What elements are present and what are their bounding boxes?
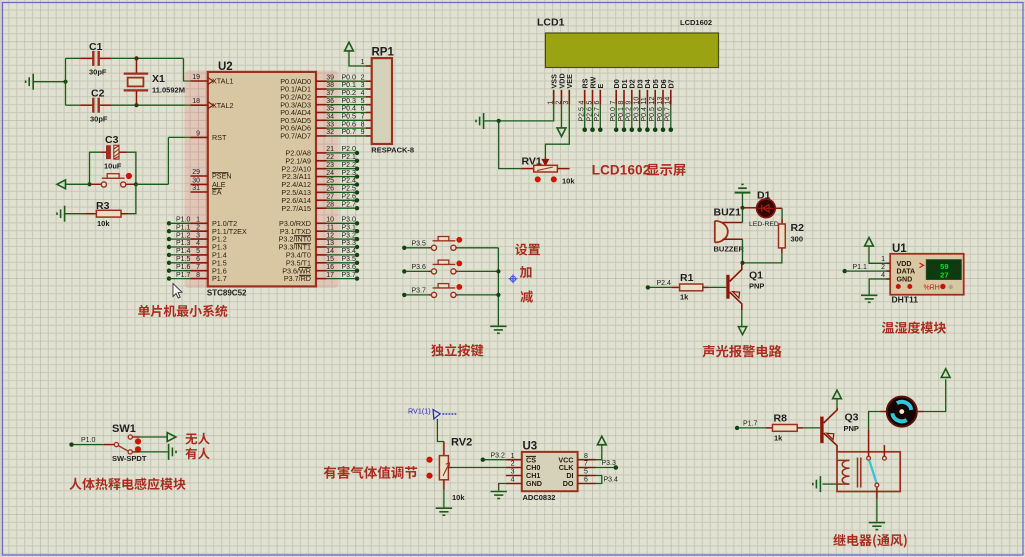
pin 17 P3.7 with net label <box>316 278 327 280</box>
svg-text:P0.5: P0.5 <box>649 107 656 122</box>
svg-text:37: 37 <box>326 90 334 97</box>
pin 35 P0.4 wire to RP1 pin 6 <box>316 111 327 113</box>
wire C2 to XTAL2 <box>112 104 191 106</box>
svg-text:P3.3: P3.3 <box>342 240 357 247</box>
net P3.2 terminal <box>481 458 485 462</box>
svg-text:P0.3: P0.3 <box>342 98 357 105</box>
svg-text:D7: D7 <box>667 79 676 88</box>
svg-text:BUZZER: BUZZER <box>714 245 745 254</box>
wire RST riser <box>167 137 169 184</box>
U3 pin 6 DO <box>578 483 596 485</box>
svg-text:6: 6 <box>594 101 601 105</box>
buzzer BUZ1 <box>715 221 728 243</box>
svg-text:8: 8 <box>618 101 625 105</box>
svg-text:P1.7: P1.7 <box>743 421 758 428</box>
svg-text:P3.6: P3.6 <box>412 264 427 271</box>
svg-text:DO: DO <box>563 479 574 488</box>
wire RV2 to ground <box>443 490 445 508</box>
svg-text:2: 2 <box>511 461 515 468</box>
wire DI-DO bracket P3.4 <box>596 476 602 484</box>
svg-text:8: 8 <box>361 121 365 128</box>
svg-text:31: 31 <box>192 185 200 192</box>
svg-text:6: 6 <box>196 256 200 263</box>
power terminal (left arrow) <box>57 180 66 189</box>
wire C1 to xtal node <box>112 57 184 59</box>
svg-text:P2.6: P2.6 <box>586 107 593 122</box>
wire P3.2 to CS <box>485 459 506 461</box>
svg-text:Q1: Q1 <box>749 270 763 282</box>
wire SW1 NO throw to ground <box>132 451 139 453</box>
node xtal2 bottom <box>134 103 138 107</box>
pin 2 P1.1 with net label <box>167 229 171 233</box>
node emitter <box>740 261 744 265</box>
wire VSS to ground <box>484 105 553 121</box>
svg-text:RESPACK-8: RESPACK-8 <box>371 145 414 154</box>
capacitor C2 <box>66 104 81 106</box>
svg-text:1: 1 <box>196 217 200 224</box>
U3 pin 8 VCC <box>578 459 596 461</box>
reset button <box>92 183 102 185</box>
DHT11 pin 4 GND <box>887 278 891 280</box>
svg-text:1k: 1k <box>774 434 783 443</box>
svg-text:RST: RST <box>212 133 227 142</box>
wire C3 right loop <box>127 152 136 184</box>
wire RV1(1) to RV2 <box>437 419 444 442</box>
svg-text:DATA: DATA <box>897 268 916 276</box>
svg-text:33: 33 <box>326 121 334 128</box>
relay NC contact stub <box>883 456 887 460</box>
pin 14 P3.4 with net label <box>316 254 327 256</box>
svg-text:10k: 10k <box>452 493 465 502</box>
svg-text:BUZ1: BUZ1 <box>714 207 742 219</box>
capacitor C1 <box>66 57 81 59</box>
svg-text:P3.4: P3.4 <box>604 477 619 484</box>
svg-text:R3: R3 <box>96 200 110 212</box>
U3 pin 3 CH1 <box>506 475 522 477</box>
svg-text:P2.2: P2.2 <box>342 162 357 169</box>
svg-text:14: 14 <box>665 97 672 105</box>
svg-text:4: 4 <box>196 240 200 247</box>
svg-text:13: 13 <box>326 240 334 247</box>
svg-text:27: 27 <box>940 270 948 279</box>
ground left (relay coil) <box>813 476 821 492</box>
svg-text:P2.4: P2.4 <box>342 178 357 185</box>
svg-text:30: 30 <box>192 177 200 184</box>
wire P1.7 to R8 <box>739 427 766 429</box>
RV2 wiper stub <box>448 467 452 469</box>
label 单片机最小系统 <box>138 305 227 317</box>
svg-text:30pF: 30pF <box>89 68 107 77</box>
svg-text:7: 7 <box>361 114 365 121</box>
label 减 <box>520 290 532 302</box>
svg-text:U1: U1 <box>892 243 907 255</box>
label 继电器(通风) <box>833 534 906 548</box>
wire P1.1 to DATA <box>847 270 887 272</box>
wire button rail <box>497 248 499 326</box>
svg-text:5: 5 <box>361 98 365 105</box>
svg-text:25: 25 <box>326 178 334 185</box>
svg-text:P2.7/A15: P2.7/A15 <box>281 204 311 213</box>
pin 28 P2.7 with net label <box>316 207 327 209</box>
power terminal (Q3) <box>833 390 842 399</box>
svg-text:7: 7 <box>196 264 200 271</box>
net P1.0 terminal <box>69 442 73 446</box>
label 独立按键 <box>431 344 483 357</box>
ground (buttons) <box>490 326 506 333</box>
node rail junction <box>63 80 67 84</box>
pin 21 P2.0 with net label <box>316 152 327 154</box>
svg-text:P0.1: P0.1 <box>618 107 625 122</box>
svg-text:P1.0: P1.0 <box>81 437 96 444</box>
svg-text:3: 3 <box>196 232 200 239</box>
wire GND to ground <box>499 484 506 491</box>
svg-text:10uF: 10uF <box>104 162 122 171</box>
pin 11 P3.1 with net label <box>316 230 327 232</box>
pin highlight band left <box>185 71 212 289</box>
pin 16 P3.6 with net label <box>316 270 327 272</box>
pin 29 PSEN <box>191 175 208 177</box>
label 设置 <box>515 244 540 256</box>
svg-text:SW-SPDT: SW-SPDT <box>112 454 147 463</box>
svg-text:XTAL2: XTAL2 <box>212 101 233 110</box>
svg-text:1: 1 <box>548 101 555 105</box>
relay common contact <box>867 456 871 460</box>
svg-text:P0.4: P0.4 <box>641 107 648 122</box>
pin 38 P0.1 wire to RP1 pin 3 <box>316 88 327 90</box>
power terminal (alarm, inverted bars) <box>735 184 751 192</box>
wire ground to rail <box>33 81 65 83</box>
label 加 <box>520 266 532 278</box>
pin 13 P3.3 with net label <box>316 246 327 248</box>
svg-text:15: 15 <box>326 256 334 263</box>
wire pole to ground <box>876 499 878 522</box>
wire buzzer to emitter node <box>742 239 744 263</box>
wire arrow to node <box>66 183 90 185</box>
pin 25 P2.4 with net label <box>316 184 327 186</box>
U3 pin 1 CS <box>506 459 522 461</box>
button P3.7 <box>402 293 406 297</box>
pin 9 RST <box>191 136 208 138</box>
motor/fan <box>887 397 917 427</box>
svg-text:RV1(1): RV1(1) <box>408 407 431 416</box>
wire R1 to Q1 base <box>709 286 727 288</box>
net P1.1 terminal <box>843 269 847 273</box>
svg-text:LCD1602: LCD1602 <box>592 163 651 178</box>
U3 pin 4 GND <box>506 483 522 485</box>
svg-text:ADC0832: ADC0832 <box>523 493 556 502</box>
svg-text:RP1: RP1 <box>372 47 395 59</box>
resistor R2 300 <box>781 219 783 224</box>
svg-text:10k: 10k <box>562 177 575 186</box>
svg-text:3: 3 <box>361 82 365 89</box>
svg-text:38: 38 <box>326 82 334 89</box>
svg-text:32: 32 <box>326 129 334 136</box>
pin 12 P3.2 with net label <box>316 238 327 240</box>
power terminal right (无人) <box>167 433 176 442</box>
svg-text:24: 24 <box>326 170 334 177</box>
wire GND pin to ground <box>869 279 886 295</box>
wire motor to power <box>916 411 923 413</box>
MCU U2 STC89C52 body <box>208 72 316 287</box>
wire XTAL1 <box>184 58 191 81</box>
net P3.3 terminal <box>614 465 619 470</box>
resistor R1 1k <box>672 286 680 288</box>
svg-text:5: 5 <box>586 101 593 105</box>
svg-text:PNP: PNP <box>749 282 764 291</box>
svg-text:35: 35 <box>326 106 334 113</box>
svg-text:P3.2: P3.2 <box>342 232 357 239</box>
svg-text:P1.2: P1.2 <box>176 232 191 239</box>
relay lever (cyan) <box>869 460 876 483</box>
pin 19 XTAL1 <box>191 80 208 82</box>
svg-text:STC89C52: STC89C52 <box>207 288 247 297</box>
wire power to RP1 pin 1 <box>349 51 366 66</box>
svg-text:P3.0: P3.0 <box>342 217 357 224</box>
svg-text:LCD1602: LCD1602 <box>680 18 712 27</box>
label 人体热释电感应模块 <box>69 478 185 490</box>
svg-text:26: 26 <box>326 186 334 193</box>
svg-text:11.0592M: 11.0592M <box>152 86 185 95</box>
svg-text:27: 27 <box>326 194 334 201</box>
svg-text:C1: C1 <box>89 41 103 53</box>
svg-text:4: 4 <box>361 90 365 97</box>
svg-text:LCD1: LCD1 <box>537 17 565 29</box>
label 声光报警电路 <box>703 345 782 358</box>
svg-text:2: 2 <box>881 264 885 271</box>
svg-text:11: 11 <box>641 97 648 104</box>
wire coil to ground <box>822 483 837 485</box>
label 有人 <box>185 448 209 460</box>
svg-text:P2.6: P2.6 <box>342 194 357 201</box>
pin 1 P1.0 with net label <box>167 221 171 225</box>
svg-text:VEE: VEE <box>565 74 574 89</box>
wire VCC to power <box>596 445 602 459</box>
svg-text:SW1: SW1 <box>112 423 136 435</box>
svg-text:Q3: Q3 <box>845 412 859 424</box>
svg-text:P0.0: P0.0 <box>610 107 617 122</box>
svg-text:E: E <box>596 84 605 89</box>
svg-text:P2.5: P2.5 <box>579 107 586 122</box>
ground (crystal rail) <box>26 74 34 90</box>
svg-text:7: 7 <box>610 101 617 105</box>
svg-text:10: 10 <box>633 97 640 105</box>
svg-text:16: 16 <box>326 264 334 271</box>
node buzzer/led top <box>740 206 744 210</box>
ground (RV2) <box>436 508 452 515</box>
pin 5 P1.4 with net label <box>167 253 171 257</box>
LCD1602 screen body <box>545 33 718 68</box>
svg-text:23: 23 <box>326 162 334 169</box>
svg-text:X1: X1 <box>152 73 165 85</box>
svg-text:P0.2: P0.2 <box>626 107 633 122</box>
svg-text:P2.7: P2.7 <box>594 107 601 122</box>
svg-text:P3.5: P3.5 <box>412 241 427 248</box>
svg-text:P1.7: P1.7 <box>176 272 191 279</box>
node xtal1 top <box>134 56 138 60</box>
svg-text:28: 28 <box>326 201 334 208</box>
svg-text:P2.0: P2.0 <box>342 146 357 153</box>
button P3.6 <box>402 269 406 273</box>
svg-text:RV1: RV1 <box>522 156 542 168</box>
SW1 pin markers <box>135 438 141 444</box>
svg-text:1: 1 <box>511 453 515 460</box>
svg-text:P0.7/AD7: P0.7/AD7 <box>280 132 311 141</box>
svg-text:P2.1: P2.1 <box>342 154 357 161</box>
svg-text:P0.6: P0.6 <box>342 121 357 128</box>
svg-text:9: 9 <box>626 101 633 105</box>
svg-text:D1: D1 <box>757 190 771 202</box>
ground (relay pole) <box>869 523 885 530</box>
resistor R8 1k <box>766 427 773 429</box>
net P1.7 terminal <box>735 426 739 430</box>
ADC0832 U3 body <box>522 452 578 491</box>
svg-text:P3.7: P3.7 <box>342 272 357 279</box>
wire R3 to reset node <box>129 184 136 213</box>
wire P3.5 to rail <box>458 247 498 249</box>
svg-text:9: 9 <box>196 130 200 137</box>
svg-text:3: 3 <box>563 101 570 105</box>
svg-text:2: 2 <box>555 101 562 105</box>
pin 32 P0.7 wire to RP1 pin 9 <box>316 135 327 137</box>
svg-text:34: 34 <box>326 114 334 121</box>
pin 22 P2.1 with net label <box>316 160 327 162</box>
wire P3.6 to rail <box>458 270 498 272</box>
svg-text:P1.6: P1.6 <box>176 264 191 271</box>
svg-text:4: 4 <box>881 272 885 279</box>
svg-text:P0.2: P0.2 <box>342 90 357 97</box>
power terminal above RP1 <box>345 42 354 51</box>
ground (DHT11) <box>861 295 877 302</box>
svg-text:RV2: RV2 <box>451 437 472 449</box>
svg-text:5: 5 <box>584 469 588 476</box>
svg-text:7: 7 <box>584 461 588 468</box>
svg-text:P3.3: P3.3 <box>602 460 617 467</box>
svg-text:36: 36 <box>326 98 334 105</box>
ground (LCD VSS) <box>476 113 484 129</box>
svg-text:P0.3: P0.3 <box>633 107 640 122</box>
svg-text:%RH: %RH <box>924 284 940 291</box>
LED D1 LED-RED <box>743 207 758 209</box>
svg-text:P0.0: P0.0 <box>342 74 357 81</box>
svg-text:6: 6 <box>361 106 365 113</box>
wire Q1 collector to ground arrow <box>741 310 743 327</box>
svg-text:22: 22 <box>326 154 334 161</box>
wire R2 to emitter node <box>743 253 782 263</box>
switch SW1 SW-SPDT <box>104 444 114 446</box>
pin 4 P1.3 with net label <box>167 245 171 249</box>
svg-text:P3.2: P3.2 <box>491 452 506 459</box>
node VSS/RV1 <box>497 119 501 123</box>
pin 37 P0.2 wire to RP1 pin 4 <box>316 96 327 98</box>
svg-text:XTAL1: XTAL1 <box>212 77 233 86</box>
svg-text:18: 18 <box>192 98 200 105</box>
svg-text:2: 2 <box>361 74 365 81</box>
svg-text:U2: U2 <box>218 61 233 73</box>
net P2.4 terminal <box>646 285 650 289</box>
pin 39 P0.0 wire to RP1 pin 2 <box>316 80 327 82</box>
DHT11 pin 1 VDD <box>887 262 891 264</box>
wire LED to R2 <box>781 208 783 219</box>
svg-text:P1.4: P1.4 <box>176 248 191 255</box>
svg-text:5: 5 <box>196 248 200 255</box>
svg-text:P3.6: P3.6 <box>342 264 357 271</box>
button P3.5 <box>402 246 406 250</box>
RV1 wiper arrow <box>543 157 549 165</box>
svg-text:6: 6 <box>584 477 588 484</box>
capacitor C3 10uF <box>106 145 111 159</box>
svg-text:1: 1 <box>361 59 365 66</box>
pin 3 P1.2 with net label <box>167 237 171 241</box>
svg-text:P1.1: P1.1 <box>853 264 868 271</box>
svg-text:8: 8 <box>584 453 588 460</box>
wire left rail <box>65 58 67 105</box>
wire relay common to motor <box>869 412 881 431</box>
svg-text:P1.5: P1.5 <box>176 256 191 263</box>
DHT11 pin 2 DATA <box>887 270 891 272</box>
svg-text:29: 29 <box>192 169 200 176</box>
node reset right <box>134 182 138 186</box>
label 无人 <box>185 433 209 445</box>
wire CLK to P3.3 <box>596 467 614 469</box>
pin 23 P2.2 with net label <box>316 168 327 170</box>
pin 34 P0.5 wire to RP1 pin 7 <box>316 119 327 121</box>
wire SW1 NC throw to power <box>132 436 139 438</box>
svg-text:GND: GND <box>897 276 913 284</box>
svg-text:11: 11 <box>327 224 334 231</box>
svg-text:1: 1 <box>881 256 885 263</box>
power terminal down (VDD) <box>561 105 563 128</box>
resistor pack RP1 RESPACK-8 <box>372 58 392 144</box>
wire P2.4 to R1 <box>650 286 672 288</box>
ground right (有人) <box>169 444 176 460</box>
ground (U3) <box>491 492 507 499</box>
mouse cursor <box>173 284 182 299</box>
svg-text:P2.5: P2.5 <box>342 186 357 193</box>
pin 36 P0.3 wire to RP1 pin 5 <box>316 104 327 106</box>
relay pole contact <box>875 483 879 487</box>
svg-text:4: 4 <box>511 477 515 484</box>
svg-text:P0.4: P0.4 <box>342 106 357 113</box>
pin 24 P2.3 with net label <box>316 176 327 178</box>
pin 26 P2.5 with net label <box>316 191 327 193</box>
svg-text:U3: U3 <box>523 441 538 453</box>
svg-text:30pF: 30pF <box>90 115 108 124</box>
wire power to Q3 <box>836 399 838 408</box>
pin 8 P1.7 with net label <box>167 276 171 280</box>
pin 6 P1.5 with net label <box>167 261 171 265</box>
wire RST to pin <box>168 136 190 138</box>
svg-text:9: 9 <box>361 129 365 136</box>
resistor R3 10k <box>57 206 65 222</box>
transistor Q3 PNP <box>820 417 823 444</box>
svg-text:3: 3 <box>511 469 515 476</box>
potentiometer RV2 10k <box>443 442 445 456</box>
RV2 pin markers <box>426 457 432 463</box>
svg-text:R1: R1 <box>680 272 694 284</box>
power terminal (motor) <box>941 369 950 378</box>
svg-text:P0.7: P0.7 <box>665 107 672 122</box>
svg-text:PNP: PNP <box>844 424 859 433</box>
label 温湿度模块 <box>882 321 946 333</box>
RV1 unconnected pin markers <box>535 176 541 182</box>
wire wiper to CH0 <box>452 467 506 469</box>
transistor Q1 PNP <box>726 275 729 299</box>
svg-text:P3.1: P3.1 <box>342 224 357 231</box>
svg-text:2: 2 <box>196 224 200 231</box>
pin 15 P3.5 with net label <box>316 262 327 264</box>
svg-text:P2.4: P2.4 <box>657 280 672 287</box>
potentiometer RV1 10k <box>521 168 534 170</box>
